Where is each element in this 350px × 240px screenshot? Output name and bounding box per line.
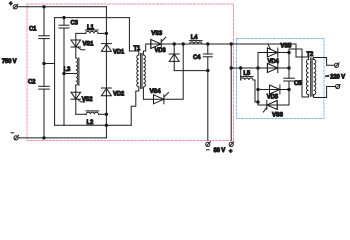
inductor L5	[241, 68, 254, 80]
svg-text:750 V: 750 V	[2, 59, 17, 65]
svg-text:VS2: VS2	[82, 97, 94, 103]
terminal -80V	[206, 142, 211, 150]
wire top bus y=17.6	[55, 17, 130, 19]
svg-text:VD5: VD5	[267, 95, 279, 101]
wire L5 to bus bottom	[253, 80, 258, 102]
node inverter feed junction	[230, 67, 232, 69]
thyristor VS4	[150, 89, 169, 104]
node L5 tap junction	[240, 67, 242, 69]
node +80V branch junction	[230, 43, 232, 45]
wire L3 to VS2	[75, 85, 77, 92]
wire top rail +750V	[17, 6, 106, 8]
thyristor VS5	[258, 44, 292, 58]
wire T1 primary top lead	[129, 18, 138, 55]
transformer T2	[306, 52, 315, 96]
svg-text:L4: L4	[191, 35, 198, 41]
blue dashed enclosure	[237, 39, 325, 119]
svg-text:VS4: VS4	[150, 89, 162, 95]
inductor L1	[86, 25, 99, 33]
wire L1 to +rail	[98, 32, 106, 34]
capacitor C4	[193, 44, 212, 71]
svg-text:C2: C2	[28, 80, 36, 86]
capacitor C5	[284, 78, 302, 87]
wire 80V minus bus y=70.6	[174, 70, 208, 72]
wire -80V drop to terminal	[207, 71, 209, 141]
diode VD1	[101, 44, 125, 56]
thyristor VS3	[151, 31, 166, 49]
node L2 / VD2 junction	[105, 113, 107, 115]
svg-text:C4: C4	[193, 55, 201, 61]
svg-text:VD1: VD1	[113, 50, 125, 56]
wire L3 centre tap	[64, 73, 76, 75]
svg-text:L5: L5	[243, 71, 250, 77]
wire T2 primary bottom lead	[289, 49, 309, 97]
pink dashed enclosure	[27, 4, 234, 141]
wire VS2 to L2	[76, 113, 86, 115]
node C3 top junction	[63, 16, 65, 18]
node capacitor midpoint	[43, 62, 45, 64]
svg-text:VS3: VS3	[151, 31, 163, 37]
wire capacitor midpoint tap	[44, 63, 55, 65]
node right bus VD5 junction	[288, 88, 290, 90]
svg-text:C1: C1	[29, 27, 37, 33]
wire inverter left bus	[257, 53, 259, 106]
svg-text:VS1: VS1	[83, 42, 95, 48]
capacitor C1	[29, 7, 49, 64]
svg-text:VD4: VD4	[268, 59, 280, 65]
svg-text:T1: T1	[134, 46, 141, 52]
transformer T1	[134, 46, 146, 89]
svg-text:~ 220 V: ~ 220 V	[326, 74, 346, 80]
svg-text:C3: C3	[71, 21, 79, 27]
capacitor C3	[59, 18, 79, 126]
thyristor VS1	[71, 40, 94, 50]
thyristor VS2	[71, 92, 93, 103]
svg-text:80 V: 80 V	[214, 148, 226, 154]
wire T1 secondary top lead	[143, 44, 150, 55]
svg-text:VD3: VD3	[155, 48, 167, 54]
svg-text:L1: L1	[87, 25, 94, 31]
diode VD5	[258, 85, 289, 101]
wire inverter right bus / C5 branch	[288, 49, 290, 78]
wire bottom bus y=125.3	[55, 124, 132, 126]
wire T1 secondary bottom lead	[143, 87, 153, 99]
node VS4 rail junction	[182, 43, 184, 45]
wire main DC bus y=44	[161, 43, 296, 45]
node C4 top junction	[207, 43, 209, 45]
node bottom rail / C2 junction	[43, 137, 45, 139]
inductor L4	[189, 35, 202, 44]
wire T2 primary top lead from main bus	[296, 44, 309, 60]
node VS5 / right bus junction	[288, 51, 290, 53]
wire +80V drop to terminal	[230, 44, 232, 140]
svg-text:VD2: VD2	[113, 92, 125, 98]
node left bus VD5 junction	[257, 88, 259, 90]
terminal 220V lower	[336, 84, 341, 88]
node top rail / C1 junction	[43, 6, 45, 8]
node right bus VD4 junction	[288, 67, 290, 69]
diode VD3	[155, 44, 180, 71]
wire VS1 cathode to L3	[75, 47, 77, 58]
node C4 bottom junction	[207, 69, 209, 71]
node bus bottom junction	[257, 101, 259, 103]
thyristor VS6	[258, 101, 289, 119]
wire inverter input y=68	[231, 67, 289, 69]
wire T2 secondary top tap	[314, 58, 334, 66]
wire VS4 rail	[164, 44, 183, 99]
terminal +80V	[229, 142, 234, 155]
node C3 / L3 tap junction	[63, 72, 65, 74]
wire VD1 VD2 rail	[105, 7, 107, 138]
node L1 / +rail junction	[105, 32, 107, 34]
wire T1 primary bottom lead	[131, 87, 139, 125]
wire L2 to VD2 node	[99, 113, 107, 115]
terminal - (bottom left input)	[11, 133, 19, 140]
wire T2 secondary bottom tap	[314, 87, 335, 98]
wire midpoint rail vertical	[54, 18, 56, 126]
diode VD4	[258, 59, 289, 73]
svg-text:L3: L3	[64, 67, 71, 73]
svg-text:C5: C5	[294, 81, 302, 87]
wire VS1 anode riser	[76, 33, 86, 40]
inductor L3 (vertical)	[64, 58, 79, 86]
wire VS2 cathode down	[75, 100, 77, 115]
node VD3 top junction	[173, 43, 175, 45]
node rail / bottom bus junction	[105, 124, 107, 126]
wire bottom rail -750V	[18, 137, 106, 139]
terminal + (top left input)	[9, 2, 18, 9]
svg-text:VS6: VS6	[272, 113, 284, 119]
inductor L2	[86, 111, 99, 126]
capacitor C2	[28, 64, 49, 138]
node left bus VD4 junction	[257, 67, 259, 69]
diode VD2	[101, 88, 125, 98]
svg-text:L2: L2	[87, 120, 94, 126]
terminal 220V upper	[335, 63, 340, 68]
svg-text:T2: T2	[307, 52, 314, 58]
